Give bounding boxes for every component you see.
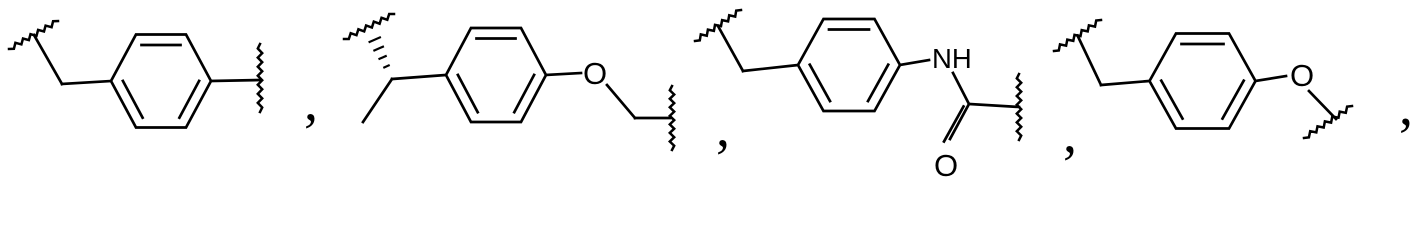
svg-text:O: O <box>934 148 958 177</box>
svg-text:,: , <box>1063 103 1077 165</box>
svg-text:,: , <box>304 71 318 133</box>
svg-text:NH: NH <box>932 43 972 74</box>
svg-text:O: O <box>1290 58 1314 93</box>
svg-text:O: O <box>583 56 607 91</box>
svg-text:,: , <box>716 97 730 159</box>
svg-text:,: , <box>1399 76 1413 138</box>
